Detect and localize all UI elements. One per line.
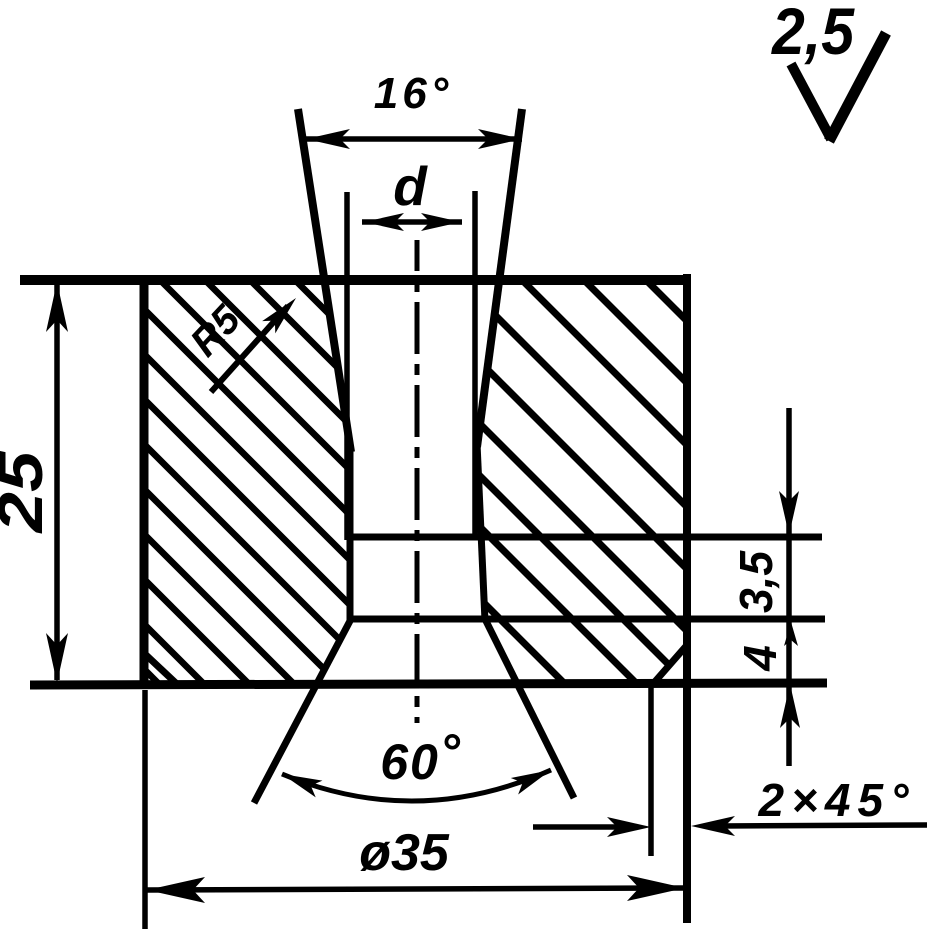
dimension line 2x45 left part: [533, 824, 620, 830]
svg-text:d: d: [393, 155, 428, 217]
block right edge + dia-35 right extension line: [683, 274, 691, 923]
right extension line for d: [472, 191, 478, 540]
left taper wall (16 deg) extended above surface: [298, 109, 351, 452]
land top line / extension for 3,5 dimension: [350, 534, 822, 541]
arrowhead dia-35 left: [147, 877, 205, 903]
dimension line 16 deg: [306, 136, 522, 142]
svg-text:2×45°: 2×45°: [757, 774, 915, 826]
left land wall: [347, 448, 354, 621]
dimension line dia-35: [147, 888, 685, 890]
dimension line d: [362, 219, 462, 225]
leader line R5: [211, 306, 288, 392]
svg-text:4: 4: [734, 645, 786, 672]
bottom-right chamfer 2x45 line: [652, 645, 687, 685]
svg-text:ø35: ø35: [359, 824, 450, 882]
block left edge: [140, 278, 149, 687]
arrowhead 16deg left: [306, 129, 350, 149]
arrowhead R5: [262, 292, 302, 334]
dimension line 2x45 right part: [720, 825, 927, 826]
dimension arc 60 deg: [282, 770, 551, 801]
bottom-left chamfer line: [146, 655, 179, 686]
arrowhead 16deg right: [478, 129, 522, 149]
arrowhead 60deg right: [511, 762, 555, 795]
svg-text:2,5: 2,5: [770, 0, 855, 68]
svg-text:3,5: 3,5: [730, 550, 782, 613]
cone start line / extension for 3,5 and 4 dimensions: [350, 616, 825, 623]
arrowhead 25 top: [46, 282, 68, 332]
small arrowhead below cone-start line: [784, 622, 798, 646]
arrowhead 4 (up at base line): [780, 684, 800, 728]
arrowhead 60deg left: [279, 766, 323, 798]
arrowhead 25 bottom: [46, 633, 68, 683]
bottom surface line: [30, 683, 827, 685]
dimension line 3,5 / 4: [786, 408, 792, 766]
svg-text:16°: 16°: [374, 69, 453, 118]
arrowhead d right: [421, 213, 461, 231]
arrowhead 3,5 top (down at land line): [779, 491, 799, 535]
arrowhead 2x45 right (points left): [691, 816, 735, 836]
arrowhead 2x45 left (points right): [607, 817, 651, 837]
right land wall: [477, 443, 485, 621]
arrowhead dia-35 right: [627, 875, 685, 901]
dimension line 25: [54, 285, 60, 680]
extension line for chamfer 2x45: [648, 684, 654, 856]
left extension line for d: [344, 192, 350, 540]
roughness check mark left arm: [791, 64, 831, 139]
hole center line (dash-dot): [415, 240, 420, 723]
left 60-deg cone line extended below base: [254, 619, 351, 803]
arrowhead d left: [364, 213, 404, 231]
right taper wall (16 deg) extended above surface: [477, 109, 522, 447]
svg-text:25: 25: [0, 450, 56, 533]
svg-text:60°: 60°: [380, 724, 462, 790]
left extension line for dia-35: [142, 690, 148, 929]
roughness check mark right arm: [829, 33, 886, 141]
top surface line: [20, 275, 689, 285]
right 60-deg cone line extended below base: [485, 619, 574, 798]
